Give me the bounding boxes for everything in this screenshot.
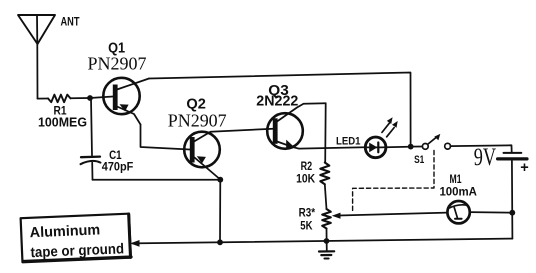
node D junction dot: [324, 238, 330, 244]
svg-text:470pF: 470pF: [102, 162, 134, 174]
wire bottom rail: [133, 239, 513, 244]
svg-text:2N222: 2N222: [256, 93, 298, 109]
node A junction dot: [87, 95, 93, 101]
svg-text:9V: 9V: [474, 143, 496, 170]
wire Q3 collector down to R2: [324, 103, 327, 162]
label 9V: [474, 143, 496, 170]
resistor R2: [320, 163, 329, 185]
svg-text:10K: 10K: [296, 173, 316, 185]
label Aluminum: [29, 222, 100, 241]
transistor Q3: [267, 103, 365, 148]
wire C1 down: [91, 163, 93, 180]
svg-text:ANT: ANT: [61, 15, 81, 29]
meter M1: [447, 201, 469, 223]
wire C1 to node B: [93, 179, 221, 181]
svg-text:R2: R2: [301, 161, 313, 173]
node F junction dot: [509, 210, 515, 216]
label tape or ground: [30, 241, 124, 261]
antenna symbol: [18, 15, 55, 44]
battery B1: [498, 153, 527, 159]
LED LED1: [365, 117, 397, 157]
svg-text:5K: 5K: [300, 220, 313, 232]
aluminum tape box: [21, 214, 132, 263]
svg-text:S1: S1: [414, 154, 424, 166]
wire LED1 cathode to node E: [386, 146, 408, 149]
wire S1 to battery: [450, 145, 511, 152]
wire Q1 emitter to Q2 base: [141, 125, 191, 150]
wire R3 to bottom rail: [326, 229, 328, 241]
svg-text:+: +: [520, 160, 528, 176]
wire node B to bottom rail: [219, 180, 221, 243]
wire top rail Q1 collector to node E: [149, 73, 411, 147]
svg-text:100mA: 100mA: [439, 184, 477, 198]
wire R1 to node A: [71, 97, 91, 99]
wire node A down to C1: [91, 98, 92, 156]
transistor Q2: [184, 129, 273, 180]
dashed mechanical link S1 to R3: [353, 151, 434, 213]
node C junction dot: [217, 239, 223, 245]
resistor R1: [48, 95, 71, 103]
wire M1 to node F: [470, 211, 513, 214]
svg-text:PN2907: PN2907: [88, 54, 147, 74]
wire R3 wiper to M1 with arrow: [332, 213, 448, 219]
switch S1: [422, 134, 450, 149]
wire battery down right side: [511, 159, 514, 239]
resistor R3 potentiometer: [322, 209, 331, 229]
svg-text:Aluminum: Aluminum: [29, 222, 100, 241]
svg-text:R3*: R3*: [299, 208, 316, 220]
svg-text:100MEG: 100MEG: [38, 115, 87, 130]
wire R2 to R3: [325, 184, 327, 209]
capacitor C1: [81, 157, 101, 165]
svg-text:PN2907: PN2907: [168, 111, 227, 131]
node B junction dot: [217, 177, 223, 183]
wire antenna stem: [36, 44, 38, 99]
transistor Q1: [103, 78, 149, 125]
arrow into aluminum tape box: [130, 240, 139, 247]
wire node A to Q1 base: [90, 97, 113, 99]
svg-text:LED1: LED1: [336, 136, 361, 148]
node E junction dot: [408, 144, 414, 150]
ground: [319, 241, 334, 259]
wire antenna to R1: [38, 98, 49, 100]
wire node E to S1: [411, 146, 423, 148]
svg-text:C1: C1: [109, 150, 122, 162]
